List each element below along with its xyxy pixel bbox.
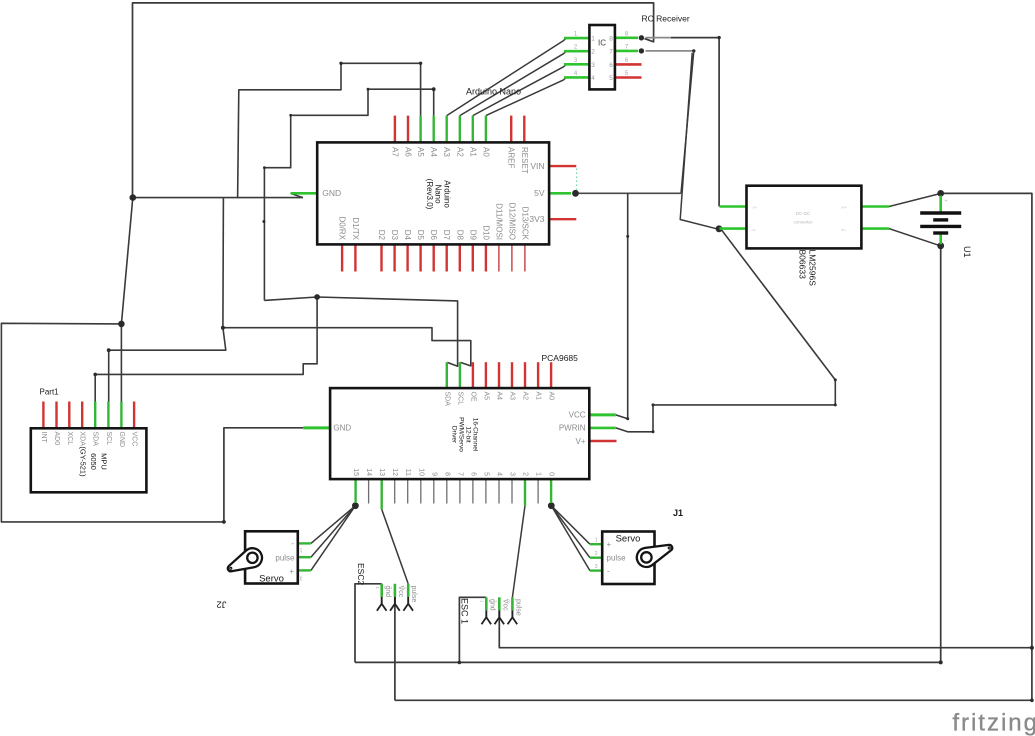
- wire 5V rail from Arduino 5V: [579, 192, 682, 194]
- bend dot at (693.8,50.9): [692, 49, 695, 52]
- wire gnd net: left frame loop to PCA GND riser: [1, 323, 224, 522]
- svg-text:11: 11: [404, 469, 411, 476]
- wire scl net: drop to MPU SCL pin: [108, 350, 110, 402]
- svg-text:+: +: [289, 567, 294, 576]
- Arduino Nano bottom pin D9: [472, 244, 474, 271]
- svg-text:2: 2: [522, 472, 529, 476]
- PCA9685 bottom pin 15 green: [354, 479, 356, 503]
- wire gnd net: Arduino GND horizontal to left junction: [133, 197, 303, 199]
- svg-text:3: 3: [300, 575, 303, 581]
- PCA9685 bottom pin 5 stub: [485, 479, 487, 503]
- wire PCA pin2 to ESC1 pulse: [512, 506, 525, 598]
- svg-text:pulse: pulse: [275, 553, 295, 562]
- bend dot at (719.1,37.6): [717, 36, 720, 39]
- svg-text:8: 8: [609, 36, 613, 43]
- svg-text:D1/TX: D1/TX: [351, 217, 360, 240]
- Arduino Nano bottom pin D10: [485, 244, 487, 271]
- wire gnd net: riser up to PCA9685 GND: [224, 428, 303, 522]
- wire rc pin8 to regulator IN+: [671, 38, 719, 207]
- wire second slant to regulator IN-: [680, 53, 717, 229]
- svg-text:J1: J1: [673, 508, 683, 518]
- ESC2 pulse pin with wire-end fork: [407, 584, 410, 597]
- svg-text:Arduino Nano: Arduino Nano: [466, 87, 521, 97]
- wire sda net: drop to MPU SDA pin: [94, 374, 96, 401]
- MPU top pin SDA: [94, 402, 96, 429]
- svg-text:6: 6: [609, 62, 613, 69]
- junction dot PCA pin0 (551.3,505.7): [548, 502, 555, 509]
- wire PCA pin15 fan to servo J2: [311, 506, 356, 544]
- bend dot (627.7,418.7): [626, 417, 629, 420]
- PCA9685 V+ red stub: [589, 440, 616, 443]
- svg-text:VCC: VCC: [569, 411, 586, 420]
- wire PCA pin0 fan to servo J1: [551, 506, 590, 545]
- svg-text:13: 13: [378, 468, 385, 476]
- wire rc pin7 slant down to 5V rail: [681, 51, 694, 193]
- ESC1 vcc pin with wire-end fork: [498, 597, 501, 610]
- svg-text:in+: in+: [842, 205, 848, 210]
- svg-text:7: 7: [456, 472, 463, 476]
- MPU top pin INT: [42, 402, 44, 429]
- svg-text:PCA9685: PCA9685: [542, 353, 579, 363]
- PCA9685 bottom pin 3 stub: [511, 479, 513, 503]
- wire scl net: to PCA9685 SCL pin: [223, 328, 471, 366]
- svg-text:A5: A5: [416, 147, 425, 157]
- svg-text:A3: A3: [442, 147, 451, 157]
- PCA9685 body: [330, 388, 589, 479]
- wire sda net: upper zig chain: [264, 89, 433, 300]
- battery + green stub: [939, 196, 942, 213]
- svg-text:Driver: Driver: [451, 426, 458, 444]
- wire rc pin3 green: [564, 63, 589, 66]
- svg-text:INT: INT: [40, 432, 47, 444]
- battery U1 plate short: [933, 218, 948, 221]
- PCA9685 top pin A1: [537, 362, 539, 388]
- svg-text:Servo: Servo: [616, 534, 641, 545]
- wire scl net: branch to MPU SCL: [109, 328, 226, 351]
- bend dot sda at (264.4,167.7): [263, 166, 266, 169]
- Arduino Nano bottom pin D3: [393, 244, 395, 271]
- svg-text:fritzing: fritzing: [952, 710, 1035, 736]
- svg-text:V+: V+: [575, 437, 585, 446]
- wire rc pin7 green: [615, 50, 638, 53]
- Arduino Nano top pin A3: [446, 116, 448, 143]
- svg-text:Nano: Nano: [434, 184, 443, 204]
- ratsnest dotted VIN-5V: [576, 169, 578, 191]
- wire ground bus y=662: [355, 661, 941, 663]
- servo J2 pin stub y=570.4: [298, 569, 311, 571]
- svg-text:+: +: [945, 199, 948, 205]
- Arduino Nano bottom pin D4: [406, 244, 408, 271]
- wire sda net: slanted run to PCA SDA: [264, 297, 457, 366]
- Arduino Nano top pin A2: [459, 116, 461, 143]
- svg-text:4: 4: [591, 75, 595, 82]
- MPU top pin SCL: [107, 402, 109, 429]
- PCA9685 top pin A5: [485, 362, 487, 388]
- junction dot rc pin7 (641.4,50.9): [639, 48, 644, 53]
- svg-text:pulse: pulse: [410, 586, 417, 603]
- junction dot scl at (108.7,350.2): [107, 348, 111, 352]
- wire PCA GND green: [303, 426, 330, 429]
- svg-text:9: 9: [430, 472, 437, 476]
- bend dot at (1031.9,700.3): [1030, 699, 1034, 703]
- svg-text:Arduino: Arduino: [443, 180, 452, 208]
- svg-text:6: 6: [469, 472, 476, 476]
- wire rc pin8 green: [615, 36, 638, 39]
- svg-text:VCC: VCC: [131, 432, 138, 447]
- Arduino Nano top pin A5: [419, 116, 421, 143]
- wire sda net: Arduino A4 riser: [433, 89, 435, 115]
- wire bottom rail y=700: [395, 699, 1032, 701]
- svg-text:OE: OE: [469, 392, 476, 402]
- servo J1 body: [602, 532, 654, 585]
- svg-text:A1: A1: [468, 147, 477, 157]
- svg-text:0: 0: [548, 472, 555, 476]
- battery U1 plate long top: [920, 211, 961, 214]
- junction dot scl at (222.9,327.7): [221, 326, 225, 330]
- PCA9685 bottom pin 11 stub: [407, 479, 409, 503]
- junction dot regulator left-lower (719,228.8): [716, 225, 723, 232]
- svg-text:o+: o+: [753, 205, 758, 210]
- wire regulator right-bottom to battery -: [889, 229, 939, 246]
- svg-text:D3: D3: [390, 230, 399, 241]
- Arduino Nano bottom pin D12/MISO: [511, 244, 513, 271]
- MPU top pin VCC: [133, 402, 135, 429]
- Arduino Nano top pin A4: [433, 116, 435, 143]
- servo J2 horn: [228, 548, 262, 571]
- servo J2 body: [245, 531, 298, 583]
- Arduino Nano right pin VIN: [549, 165, 576, 167]
- battery - green stub: [939, 234, 942, 245]
- wire Arduino GND green: [291, 192, 318, 195]
- svg-text:3: 3: [509, 472, 516, 476]
- wire PCA VCC green: [589, 413, 616, 416]
- svg-text:SCL: SCL: [105, 432, 112, 446]
- bend dot (653,431.8): [652, 430, 655, 433]
- svg-text:A0: A0: [481, 147, 490, 157]
- wire rc pin4 green: [564, 76, 589, 79]
- svg-text:-: -: [607, 567, 610, 576]
- MPU top pin GND: [120, 402, 122, 429]
- svg-text:ESC 1: ESC 1: [460, 598, 470, 624]
- battery U1 plate long bottom: [920, 225, 961, 228]
- svg-text:D0/RX: D0/RX: [338, 216, 347, 240]
- svg-text:GND: GND: [322, 188, 341, 198]
- svg-text:J2: J2: [216, 599, 226, 610]
- servo J2 pin stub y=557.2: [298, 556, 311, 558]
- svg-text:1: 1: [535, 472, 542, 476]
- wire ESC1 gnd bracket: [459, 597, 486, 662]
- wire 5V drop to PCA VCC: [616, 193, 628, 418]
- junction dot at (459.4,662.4): [458, 661, 462, 665]
- svg-text:AD0: AD0: [53, 432, 60, 446]
- svg-text:A5: A5: [482, 392, 489, 401]
- svg-text:1: 1: [591, 36, 595, 43]
- bend dot (653,404.9): [652, 403, 655, 406]
- svg-text:Part1: Part1: [40, 388, 60, 397]
- svg-text:GND: GND: [333, 424, 351, 433]
- PCA9685 bottom pin 2 green: [524, 479, 526, 506]
- svg-text:DC-DC: DC-DC: [796, 211, 811, 216]
- MPU top pin XCL: [68, 402, 70, 429]
- svg-text:1: 1: [300, 547, 303, 553]
- wire regulator right-top to battery +: [889, 194, 939, 207]
- ESC2 vcc pin with wire-end fork: [394, 584, 397, 597]
- RC receiver IC body: [589, 25, 615, 89]
- svg-text:D6: D6: [429, 230, 438, 241]
- svg-text:6050: 6050: [89, 453, 98, 470]
- wire gnd net: top frame (left vertical, top horizontal, drop to RC pin8): [133, 3, 654, 198]
- svg-text:14: 14: [365, 468, 372, 476]
- battery U1 plate short bottom: [933, 231, 948, 234]
- svg-text:5V: 5V: [534, 188, 545, 198]
- Arduino Nano top pin RESET: [523, 116, 525, 143]
- bend dot sda at (433.7,89.2): [432, 87, 436, 91]
- svg-text:B06633: B06633: [798, 250, 808, 280]
- svg-text:2: 2: [595, 551, 598, 557]
- svg-text:U1: U1: [962, 246, 972, 258]
- wire regulator OUT+ green: [861, 205, 889, 208]
- ESC1 gnd pin with wire-end fork: [485, 597, 488, 610]
- wire battery - vertical: [940, 246, 942, 663]
- svg-text:D4: D4: [403, 230, 412, 241]
- svg-text:+: +: [607, 540, 612, 549]
- svg-text:D7: D7: [442, 230, 451, 241]
- svg-text:D11/MOSI: D11/MOSI: [494, 203, 503, 240]
- Arduino Nano bottom pin D6: [433, 244, 435, 271]
- Arduino Nano top pin A0: [485, 116, 487, 143]
- wire sda net: branch to MPU SDA: [95, 297, 317, 374]
- bend dot sda at (368,89.2): [367, 88, 370, 91]
- svg-text:15: 15: [352, 468, 359, 476]
- svg-text:XDA: XDA: [79, 432, 86, 447]
- bend dot sda at (263.9,221.5): [262, 220, 265, 223]
- bend dot scl at (420.6,63.3): [419, 62, 422, 65]
- svg-text:D5: D5: [416, 230, 425, 241]
- svg-text:5: 5: [609, 75, 613, 82]
- svg-text:8: 8: [443, 472, 450, 476]
- Arduino Nano bottom pin D8: [459, 244, 461, 271]
- wire gnd net: drop to MPU GND pin: [120, 324, 122, 402]
- PCA9685 bottom pin 0 green: [550, 479, 552, 503]
- wire gnd net: slant left-junction to MPU junction: [121, 198, 132, 324]
- servo J1 pin stub y=544.2: [590, 543, 602, 545]
- junction dot gnd at (132.8,197.6): [130, 194, 137, 201]
- svg-text:LM2596S: LM2596S: [808, 250, 818, 287]
- RC receiver pin6 red stub: [615, 63, 642, 66]
- wire scl net: Arduino A5 up-and-over chain: [238, 63, 421, 198]
- svg-text:A6: A6: [404, 147, 413, 157]
- svg-text:VIN: VIN: [530, 161, 544, 171]
- svg-text:D2: D2: [377, 230, 386, 241]
- svg-text:A4: A4: [496, 392, 503, 401]
- svg-text:pulse: pulse: [607, 554, 627, 563]
- svg-text:A4: A4: [429, 147, 438, 157]
- PCA9685 top pin SDA: [446, 362, 448, 388]
- wire battery + to right frame: [941, 193, 1032, 700]
- Arduino Nano bottom pin D1/TX: [354, 244, 356, 271]
- svg-text:XCL: XCL: [66, 432, 73, 446]
- servo J1 pin stub y=557.7: [590, 557, 602, 559]
- svg-text:MPU: MPU: [100, 453, 109, 470]
- Arduino Nano bottom pin D11/MOSI: [498, 244, 500, 271]
- svg-text:converter: converter: [794, 220, 813, 225]
- Arduino Nano U2 body: [317, 142, 549, 244]
- wire ESC2 gnd bracket: [355, 584, 382, 663]
- PCA9685 bottom pin 4 stub: [498, 479, 500, 503]
- wire scl net: vertical x=223.4: [222, 198, 225, 328]
- wire rc pin7 grey segment: [646, 50, 694, 52]
- wire regulator OUT- green: [861, 227, 889, 230]
- wire regulator IN- green: [719, 227, 746, 230]
- wire rc A0-pin4 slant: [486, 78, 566, 116]
- ESC2 gnd pin with wire-end fork: [380, 584, 383, 597]
- svg-text:D13/SCK: D13/SCK: [520, 207, 529, 241]
- svg-text:(GY-521): (GY-521): [78, 446, 87, 477]
- PCA9685 top pin A0: [550, 362, 552, 388]
- bend dot sda at (290.7,115.3): [289, 114, 292, 117]
- wire PCA pin13 to ESC2 pulse: [382, 509, 409, 584]
- junction dot at (1031.9,647.7): [1030, 646, 1034, 650]
- Arduino Nano top pin A7: [394, 116, 396, 143]
- wire ESC1 vcc drop and run right: [499, 610, 1032, 647]
- svg-text:(Rev3.0): (Rev3.0): [425, 179, 434, 210]
- wire regulator IN+ green: [719, 205, 746, 208]
- wire rc A1-pin3 slant: [473, 64, 566, 115]
- Arduino Nano top pin A1: [472, 116, 474, 143]
- wire rc pin1 green: [564, 37, 589, 40]
- svg-text:A3: A3: [509, 392, 516, 401]
- wire PWRIN chain to regulator OUT-: [616, 229, 836, 432]
- Arduino Nano bottom pin D2: [380, 244, 382, 271]
- svg-text:GND: GND: [118, 432, 125, 448]
- PCA9685 top pin A2: [524, 362, 526, 388]
- svg-text:AREF: AREF: [507, 147, 516, 168]
- svg-text:ESC2: ESC2: [356, 563, 366, 585]
- svg-text:A1: A1: [535, 392, 542, 401]
- junction dot sda at (317.1,297.0): [314, 294, 320, 300]
- junction dot battery - (940.7,245.8): [937, 242, 944, 249]
- RC receiver pin5 red stub: [615, 76, 642, 79]
- svg-text:D9: D9: [468, 230, 477, 241]
- servo J1 pin stub y=570.6: [590, 569, 602, 571]
- bend dot at (626.8,236.4): [626, 235, 629, 238]
- junction dot gnd at (223.9,521.9): [222, 520, 226, 524]
- svg-text:2: 2: [591, 49, 595, 56]
- bend dot scl at (341,63.3): [339, 62, 342, 65]
- svg-text:Servo: Servo: [259, 574, 284, 585]
- Arduino Nano top pin A6: [407, 116, 409, 143]
- svg-text:A7: A7: [390, 147, 399, 157]
- Arduino Nano bottom pin D0/RX: [341, 244, 343, 271]
- Arduino Nano top pin AREF: [510, 116, 512, 143]
- junction dot gnd at (121.4,323.9): [118, 321, 125, 328]
- junction dot PCA pin15 (355.4,505.7): [352, 502, 359, 509]
- junction dot 5V at Arduino (575.5,193.3): [572, 190, 579, 197]
- Arduino Nano right pin 3V3: [549, 218, 576, 220]
- svg-text:SDA: SDA: [92, 432, 99, 447]
- PCA9685 top pin A4: [498, 362, 500, 388]
- PCA9685 bottom pin 13 green: [381, 479, 383, 509]
- svg-text:-: -: [291, 539, 294, 548]
- PCA9685 top pin SCL: [459, 362, 461, 388]
- junction dot at (940.7,662.4): [939, 660, 943, 664]
- svg-text:3V3: 3V3: [529, 214, 544, 224]
- servo J1 horn: [637, 545, 672, 567]
- servo J2 pin stub y=543.4: [298, 542, 311, 544]
- svg-text:D8: D8: [455, 230, 464, 241]
- PCA9685 bottom pin 9 stub: [433, 479, 435, 503]
- MPU top pin AD0: [55, 402, 57, 429]
- svg-text:RESET: RESET: [520, 147, 529, 174]
- wire rc pin8 grey segment: [646, 37, 672, 39]
- PCA9685 bottom pin 14 stub: [368, 479, 370, 503]
- svg-text:SCL: SCL: [456, 392, 463, 406]
- wire rc A2-pin2 slant: [460, 51, 566, 115]
- regulator LM2596S body: [747, 186, 862, 249]
- svg-text:A2: A2: [522, 392, 529, 401]
- svg-text:A2: A2: [455, 147, 464, 157]
- PCA9685 bottom pin 7 stub: [459, 479, 461, 503]
- MPU top pin XDA: [81, 402, 83, 429]
- PCA9685 top pin OE: [472, 362, 474, 388]
- svg-text:IC: IC: [598, 39, 606, 48]
- svg-text:D12/MISO: D12/MISO: [507, 203, 516, 240]
- PCA9685 bottom pin 12 stub: [394, 479, 396, 503]
- PCA9685 bottom pin 6 stub: [472, 479, 474, 503]
- svg-text:5: 5: [482, 472, 489, 476]
- junction dot rc pin8 (641.4,37.8): [639, 35, 644, 40]
- svg-text:1: 1: [595, 538, 598, 544]
- junction dot sda at (95.2,374.4): [93, 373, 97, 377]
- PCA9685 top pin A3: [511, 362, 513, 388]
- wire PCA PWRIN green: [589, 427, 616, 430]
- Arduino Nano bottom pin D5: [419, 244, 421, 271]
- svg-text:D10: D10: [481, 225, 490, 240]
- PCA9685 bottom pin 10 stub: [420, 479, 422, 503]
- svg-text:pulse: pulse: [515, 599, 522, 616]
- svg-text:4: 4: [496, 472, 503, 476]
- wire rc A3-pin1 slant: [447, 38, 567, 115]
- Arduino Nano bottom pin D7: [446, 244, 448, 271]
- ESC1 pulse pin with wire-end fork: [511, 597, 514, 610]
- PCA9685 bottom pin 1 stub: [537, 479, 539, 503]
- svg-text:in-: in-: [842, 227, 847, 232]
- wire gnd net: bendpoint tail at Arduino GND: [291, 193, 303, 197]
- wire rc pin2 green: [564, 50, 589, 53]
- svg-text:PWRIN: PWRIN: [559, 424, 586, 433]
- PCA9685 bottom pin 8 stub: [446, 479, 448, 503]
- Arduino Nano bottom pin D13/SCK: [524, 244, 526, 271]
- svg-text:A0: A0: [548, 392, 555, 401]
- svg-text:3: 3: [595, 564, 598, 570]
- svg-text:12: 12: [391, 468, 398, 476]
- svg-text:RC Receiver: RC Receiver: [642, 14, 690, 24]
- bend dot (835.3,404.9): [834, 403, 837, 406]
- MPU 6050 Part1 body: [31, 428, 147, 492]
- junction dot battery + (940.7,193.4): [937, 190, 944, 197]
- svg-text:7: 7: [609, 49, 613, 56]
- wire ESC2 vcc drop: [394, 597, 396, 701]
- bend dot (835.3,379.9): [834, 378, 837, 381]
- wire Arduino 5V green: [549, 192, 571, 195]
- svg-text:3: 3: [591, 62, 595, 69]
- svg-text:10: 10: [417, 468, 424, 476]
- svg-text:SDA: SDA: [443, 392, 450, 407]
